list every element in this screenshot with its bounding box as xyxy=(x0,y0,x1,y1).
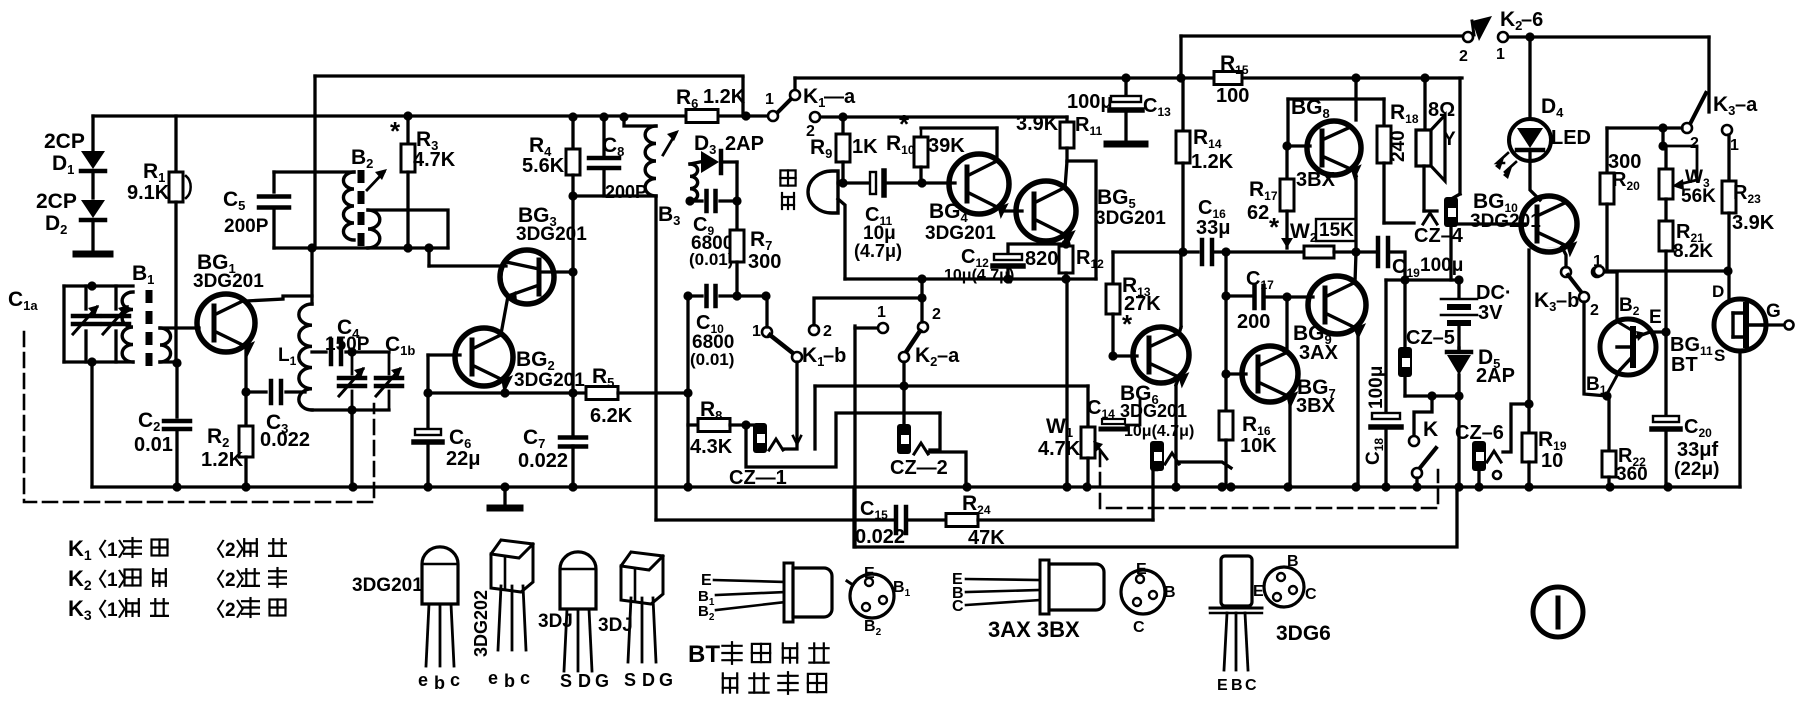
resistor R20 xyxy=(1605,128,1608,173)
capacitor C8 xyxy=(602,116,605,155)
resistor R1 xyxy=(169,172,183,202)
junction xyxy=(423,388,432,397)
wire BG8 collector riser xyxy=(1354,78,1357,120)
capacitor C16 xyxy=(1200,240,1205,264)
svg-text:10K: 10K xyxy=(1240,435,1277,457)
svg-text:3BX: 3BX xyxy=(1296,395,1336,417)
wire E to x1666 xyxy=(1650,330,1666,333)
wire G lead xyxy=(1762,323,1783,326)
junction xyxy=(683,482,692,491)
junction xyxy=(1061,239,1070,248)
capacitor C13 electrolytic xyxy=(1124,78,1127,96)
svg-text:150P: 150P xyxy=(325,334,370,355)
svg-text:15K: 15K xyxy=(1319,220,1354,241)
wire tank bottom xyxy=(64,360,133,363)
wire B2 tank top xyxy=(274,170,354,173)
svg-text:10: 10 xyxy=(1541,450,1563,472)
capacitor C3 xyxy=(246,390,266,393)
wire CZ-6 to bus xyxy=(1477,471,1480,487)
capacitor C9 xyxy=(704,191,709,211)
ground under bus xyxy=(503,487,506,505)
junction xyxy=(1351,482,1360,491)
junction xyxy=(683,388,692,397)
wire riser K1-a throw1 xyxy=(793,78,796,92)
wire x93 bus to D1 xyxy=(91,116,94,150)
wire x428 base to C6 xyxy=(426,355,429,430)
resistor R19 xyxy=(1522,433,1536,462)
junction xyxy=(917,274,926,283)
jack CZ-2 xyxy=(897,424,911,454)
junction xyxy=(917,293,926,302)
switch K2-a pole xyxy=(899,352,909,362)
junction xyxy=(1474,482,1483,491)
svg-text:9.1K: 9.1K xyxy=(127,182,170,204)
wire BG8 feedback top xyxy=(1288,97,1384,100)
resistor R5 xyxy=(586,387,618,400)
wire R19 branch to CZ-6 xyxy=(1503,404,1529,452)
wire CZ-1 bottom loop xyxy=(746,413,940,467)
svg-text:240: 240 xyxy=(1388,130,1409,162)
junction xyxy=(683,291,692,300)
wire BG3 collector row xyxy=(429,264,506,267)
junction xyxy=(568,112,577,121)
capacitor C12 electrolytic xyxy=(1008,244,1066,254)
pinout circle 2 xyxy=(1121,570,1165,614)
wire B3 coil bottom xyxy=(640,195,656,197)
resistor R2 xyxy=(244,392,247,426)
svg-text:1: 1 xyxy=(752,323,761,340)
wire K1-b throw1 riser xyxy=(765,296,768,327)
junction xyxy=(1062,482,1071,491)
switch K1-b pole xyxy=(792,352,802,362)
svg-text:C: C xyxy=(1133,619,1145,636)
svg-text:2: 2 xyxy=(932,306,941,323)
svg-text:CZ—2: CZ—2 xyxy=(890,457,948,479)
svg-text:62: 62 xyxy=(1247,202,1269,224)
wire C10 row left xyxy=(688,294,702,297)
transistor BG3 mirrored xyxy=(500,250,554,304)
switch K pole xyxy=(1412,468,1422,478)
junction xyxy=(1454,275,1463,284)
junction xyxy=(172,358,181,367)
junction xyxy=(899,381,908,390)
junction xyxy=(838,112,847,121)
svg-text:*: * xyxy=(390,116,401,146)
junction xyxy=(1524,482,1533,491)
wire R13 top riser xyxy=(1111,252,1114,284)
diode D2 xyxy=(81,200,105,218)
wire top bus y76 left xyxy=(315,74,743,77)
wire BG6 base xyxy=(1113,354,1137,357)
potentiometer W2 xyxy=(1304,246,1334,258)
wire mic box left xyxy=(838,199,845,279)
wire B1 node to R22 xyxy=(1607,394,1609,397)
transistor BG9 xyxy=(1308,276,1366,334)
jack CZ-6 xyxy=(1472,441,1486,471)
junction xyxy=(307,243,316,252)
potentiometer W3 xyxy=(1661,128,1664,146)
junction xyxy=(1605,482,1614,491)
wire x743 bus jog xyxy=(741,78,744,116)
junction xyxy=(403,243,412,252)
svg-text:–6: –6 xyxy=(1521,9,1543,31)
junction xyxy=(1221,247,1230,256)
label 15K boxed xyxy=(1316,219,1356,241)
svg-text:1: 1 xyxy=(1730,137,1739,154)
switch K2-6 throw xyxy=(1498,32,1508,42)
resistor R3 xyxy=(406,116,409,144)
svg-text:CZ–4: CZ–4 xyxy=(1414,225,1464,247)
junction xyxy=(1221,369,1230,378)
junction xyxy=(241,482,250,491)
junction xyxy=(1400,275,1409,284)
wire BG6 collector xyxy=(1179,327,1181,334)
wire secondary top to D3 xyxy=(690,162,700,164)
transistor BG4 xyxy=(949,154,1009,214)
svg-text:3DG201: 3DG201 xyxy=(1470,211,1541,232)
wire x1287 down to BG7 collector xyxy=(1285,297,1288,352)
wire LED riser xyxy=(1528,37,1531,119)
wire y396 xyxy=(1405,394,1459,397)
switch K3-b throw1l xyxy=(1561,267,1571,277)
transistor BG7 xyxy=(1242,346,1298,402)
wire B1 secondary top to BG1 base xyxy=(160,326,199,329)
capacitor C5 xyxy=(259,194,289,199)
junction xyxy=(1282,292,1291,301)
svg-text:10μ(4.7μ): 10μ(4.7μ) xyxy=(944,267,1014,284)
junction xyxy=(568,482,577,491)
resistor R21 xyxy=(1659,221,1673,251)
svg-text:1.2K: 1.2K xyxy=(1191,151,1234,173)
switch K1-b throw1 xyxy=(762,327,772,337)
svg-text:E: E xyxy=(1253,583,1264,600)
wire K2-a throw1 to x855 xyxy=(855,326,877,329)
svg-text:〈1〉: 〈1〉 xyxy=(88,598,137,621)
wire R8 row xyxy=(688,423,698,426)
switch K3-a throw1 xyxy=(1722,125,1732,135)
ground under D2 xyxy=(76,251,110,258)
LED D4 xyxy=(1509,119,1551,161)
junction xyxy=(1282,141,1291,150)
svg-text:E: E xyxy=(1217,677,1228,694)
junction xyxy=(1003,274,1012,283)
wire BG5 emitter xyxy=(1065,234,1066,246)
wire CZ-4 top riser xyxy=(1458,78,1461,194)
wire CZ-4 down to battery rail xyxy=(1449,227,1452,280)
wire S lead xyxy=(1738,351,1741,487)
dashed gang link box xyxy=(24,332,374,502)
switch K1-a lever xyxy=(777,97,793,113)
wire R10 top to BG4 collector xyxy=(921,126,997,129)
wire D lead xyxy=(1727,271,1730,300)
wire BG9 collector xyxy=(1355,252,1356,283)
capacitor C19 xyxy=(1376,238,1381,266)
wire mid rail y252 xyxy=(1113,250,1198,253)
svg-text:LED: LED xyxy=(1551,127,1591,149)
transistor BG6 xyxy=(1133,327,1189,383)
svg-text:3DJ: 3DJ xyxy=(598,615,633,636)
package 3DG6 lead xyxy=(1245,613,1248,670)
svg-text:2AP: 2AP xyxy=(1476,365,1515,387)
wire K1-b pole down xyxy=(795,362,798,441)
junction xyxy=(619,112,628,121)
junction xyxy=(1412,482,1421,491)
svg-text:3AX 3BX: 3AX 3BX xyxy=(988,617,1080,642)
wire x92 tank to bottom bus xyxy=(90,362,93,487)
svg-text:C: C xyxy=(952,598,964,615)
junction xyxy=(1171,482,1180,491)
package 3DG6 cylinder xyxy=(1221,556,1252,606)
svg-text:3DG201: 3DG201 xyxy=(352,575,423,596)
junction xyxy=(423,482,432,491)
capacitor C6 electrolytic xyxy=(415,429,441,435)
wire y386 mid xyxy=(815,384,1088,387)
wire x855 drop xyxy=(853,326,856,547)
jack CZ-4 xyxy=(1444,197,1458,227)
switch K1-a pole xyxy=(768,111,778,121)
junction xyxy=(1121,73,1130,82)
microphone xyxy=(808,171,838,213)
wire R24 to x1153 xyxy=(978,518,1153,521)
wire W2 to C19 xyxy=(1334,250,1375,253)
junction xyxy=(1602,391,1611,400)
wire y413 drop xyxy=(930,413,940,450)
arrow CZ-6 xyxy=(1487,451,1501,462)
svg-text:0.022: 0.022 xyxy=(518,450,568,472)
junction xyxy=(962,482,971,491)
svg-text:D: D xyxy=(578,671,591,691)
wire C17 left xyxy=(1226,294,1251,297)
junction xyxy=(1658,123,1667,132)
wire top bus y78 xyxy=(795,76,1462,79)
svg-text:2: 2 xyxy=(1459,48,1468,65)
capacitor C7 xyxy=(571,393,574,434)
junction xyxy=(761,291,770,300)
junction xyxy=(241,387,250,396)
battery DC 3V xyxy=(1457,280,1460,297)
wire K pole to bus xyxy=(1415,478,1418,487)
package BT leads xyxy=(714,580,786,582)
wire top bus y36 right xyxy=(1181,34,1466,37)
svg-text:E: E xyxy=(1649,307,1662,328)
wire x1405 down xyxy=(1403,280,1406,347)
svg-text:E: E xyxy=(701,572,712,589)
svg-text:*: * xyxy=(1269,212,1280,242)
resistor R10 xyxy=(920,128,923,137)
svg-text:0.022: 0.022 xyxy=(855,526,905,548)
transistor BG1 xyxy=(197,294,255,352)
svg-text:b: b xyxy=(434,673,445,693)
diode D5 xyxy=(1457,348,1460,350)
junction xyxy=(1661,327,1670,336)
svg-text:〈1〉: 〈1〉 xyxy=(88,568,137,591)
wire x688 down xyxy=(686,296,689,487)
wire K3-a row xyxy=(1607,126,1682,129)
transistor BG10 xyxy=(1521,196,1577,252)
capacitor C4 tap xyxy=(312,350,326,353)
wire BG7 emitter xyxy=(1288,396,1290,404)
svg-text:S: S xyxy=(560,671,572,691)
svg-text:200P: 200P xyxy=(224,216,269,237)
FET BG-D-G-S xyxy=(1714,299,1766,351)
variable capacitor C1b section1 xyxy=(351,352,354,374)
svg-text:BT: BT xyxy=(1671,354,1698,376)
package 3DJ can drawing xyxy=(560,552,596,609)
svg-text:Y: Y xyxy=(1443,129,1456,150)
junction xyxy=(568,191,577,200)
svg-text:1K: 1K xyxy=(852,136,878,158)
svg-text:DC·: DC· xyxy=(1476,282,1512,304)
wire x1666 E to C20 xyxy=(1664,332,1667,416)
package BT flange xyxy=(784,563,793,622)
resistor R22 xyxy=(1602,451,1616,477)
svg-text:G: G xyxy=(1766,301,1781,322)
junction xyxy=(1723,266,1732,275)
package BT body xyxy=(793,568,832,617)
jack CZ-5 xyxy=(1398,347,1412,377)
svg-text:56K: 56K xyxy=(1681,186,1716,207)
wire BG11 B1 down xyxy=(1607,370,1620,394)
junction xyxy=(917,178,926,187)
wire BG1 emitter down xyxy=(244,346,247,392)
junction xyxy=(741,420,750,429)
wire D2 to ground xyxy=(91,222,94,252)
wire CZ-5 bottom xyxy=(1403,377,1406,396)
wire C9 row xyxy=(690,199,702,202)
svg-text:300: 300 xyxy=(748,251,781,273)
transformer B2 secondary xyxy=(368,210,380,248)
diode D1 xyxy=(81,151,105,169)
svg-text:3BX: 3BX xyxy=(1296,169,1336,191)
wire K2-a pole down to CZ-2 xyxy=(902,362,905,424)
wire LED to BG10 xyxy=(1530,161,1540,200)
junction xyxy=(685,196,694,205)
switch K3-a throw2 xyxy=(1682,123,1692,133)
svg-text:3DG201: 3DG201 xyxy=(193,271,264,292)
svg-text:0.022: 0.022 xyxy=(260,429,310,451)
package 3AX flange xyxy=(1040,560,1049,614)
wire x1230 from rail xyxy=(1224,252,1227,296)
junction xyxy=(87,281,96,290)
wire B2 lead riser xyxy=(1615,272,1618,320)
junction xyxy=(500,482,509,491)
wire C16 to W2 xyxy=(1212,250,1304,253)
resistor R14 xyxy=(1181,78,1184,131)
wire x1226 c17-r16 xyxy=(1224,296,1227,411)
wire x176 bus to R1 xyxy=(174,116,177,172)
svg-text:3.9K: 3.9K xyxy=(1732,212,1775,234)
junction xyxy=(87,357,96,366)
wire tank top xyxy=(64,284,133,287)
wire y520 feedback xyxy=(656,518,893,521)
svg-text:2: 2 xyxy=(1590,302,1599,319)
capacitor C10 xyxy=(704,286,709,306)
wire L1 tank bottom xyxy=(312,408,389,411)
junction xyxy=(1351,247,1360,256)
wire BG4 collector up xyxy=(995,128,998,161)
transistor BG11 unijunction xyxy=(1600,319,1656,375)
svg-text:100: 100 xyxy=(1216,85,1249,107)
svg-text:2CP: 2CP xyxy=(36,190,77,213)
svg-text:3DG202: 3DG202 xyxy=(471,590,491,657)
svg-text:C: C xyxy=(1245,677,1257,694)
svg-text:S: S xyxy=(624,670,636,690)
variable capacitor C1a section1 xyxy=(84,286,87,309)
wire x815 riser xyxy=(813,386,816,449)
junction xyxy=(347,405,356,414)
switch K1-a throw2 xyxy=(810,112,820,122)
junction xyxy=(403,111,412,120)
resistor R8 xyxy=(698,419,730,432)
svg-text:K: K xyxy=(1423,418,1438,441)
wire C10 row right to K1-b xyxy=(737,294,767,297)
wire B3 bottom rail xyxy=(573,194,656,197)
arrow CZ-1 xyxy=(769,439,783,450)
svg-text:e: e xyxy=(418,670,428,690)
junction xyxy=(1525,32,1534,41)
resistor R16 xyxy=(1219,411,1233,440)
resistor R11 xyxy=(1065,117,1068,122)
wire BG3 base to R4 xyxy=(539,270,573,273)
svg-text:e: e xyxy=(488,668,498,688)
svg-text:(0.01): (0.01) xyxy=(690,350,734,369)
wire BG8 base xyxy=(1288,144,1310,147)
arrow B2 tuning xyxy=(367,172,384,190)
junction xyxy=(1454,482,1463,491)
resistor R6 xyxy=(686,110,718,123)
junction xyxy=(1427,391,1436,400)
wire R12 node to bus xyxy=(1065,279,1068,487)
switch K lever xyxy=(1419,448,1436,469)
switch K1-b throw2 xyxy=(809,325,819,335)
wire BG10 emitter to K3-b xyxy=(1562,247,1566,267)
svg-text:3DG6: 3DG6 xyxy=(1276,622,1331,645)
pinout circle 1 xyxy=(850,574,894,618)
svg-text:(22μ): (22μ) xyxy=(1674,459,1719,480)
junction xyxy=(424,243,433,252)
svg-text:D: D xyxy=(642,670,655,690)
switch K3-b pole xyxy=(1579,292,1589,302)
potentiometer W1 xyxy=(1086,386,1089,427)
wire BG7 base xyxy=(1226,372,1246,375)
transistor BG8 xyxy=(1307,121,1361,175)
svg-text:1.2K: 1.2K xyxy=(201,449,244,471)
wire C11 to BG4 base xyxy=(886,181,955,184)
wire K1-b to CZ-1 arrow xyxy=(783,441,797,449)
capacitor C11 electrolytic xyxy=(870,172,876,194)
wire battery rail y280 xyxy=(1386,278,1459,281)
svg-text:8Ω: 8Ω xyxy=(1428,99,1455,121)
svg-text:G: G xyxy=(659,670,673,690)
svg-text:1: 1 xyxy=(877,304,886,321)
variable capacitor C1a section2 xyxy=(114,286,117,309)
svg-text:E: E xyxy=(1136,561,1147,578)
svg-text:b: b xyxy=(504,671,515,691)
svg-text:3DG201: 3DG201 xyxy=(925,223,996,244)
package 3DG202 drawing xyxy=(491,540,533,592)
arrow CZ-2 xyxy=(914,443,928,454)
arrow CZ-4 xyxy=(1423,213,1437,224)
jack CZ-3 xyxy=(1150,441,1164,471)
wire B1 secondary bottom to x176 xyxy=(160,360,176,363)
junction xyxy=(568,388,577,397)
junction xyxy=(1178,247,1187,256)
wire K1-a throw2 to R11 top xyxy=(820,115,1067,118)
capacitor C14 electrolytic xyxy=(1102,419,1125,424)
svg-text:6.2K: 6.2K xyxy=(590,405,633,427)
wire CZ-3 to R16 line xyxy=(1179,462,1231,468)
resistor R17 xyxy=(1285,146,1288,179)
